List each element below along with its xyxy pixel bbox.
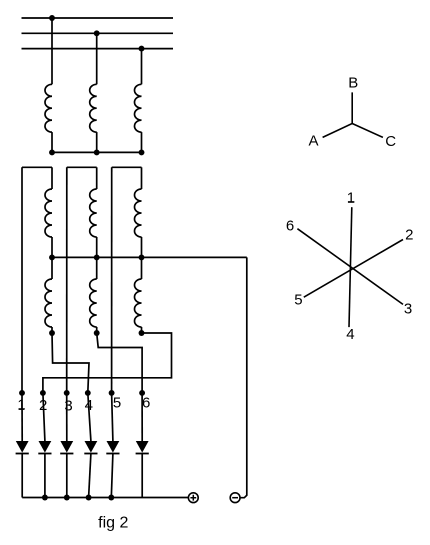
wire secondary 1 right leg upper [51, 167, 53, 189]
wire bus line L3 (phase C) [22, 48, 174, 50]
wire secondary 3 mid link [141, 237, 143, 257]
diode D3 [60, 441, 73, 454]
svg-text:fig 2: fig 2 [98, 515, 128, 532]
six-phase star line 6-3 [297, 229, 403, 305]
wire bus line L1 (phase A) [22, 17, 174, 19]
wire secondary 1 top link [22, 166, 52, 168]
node center tap dot 2 [94, 254, 100, 260]
wire diode D3 to rail [66, 454, 68, 498]
six-phase star line 2-5 [304, 240, 403, 298]
diode D1 [16, 441, 29, 454]
wire secondary 2 mid link [96, 237, 98, 257]
wire terminal 2 to diode D2 [43, 393, 45, 441]
terminal positive output [188, 493, 198, 503]
node junction dot on L1 [49, 15, 55, 21]
wire primary winding 1 tail [51, 132, 53, 152]
wire secondary 2 bottom tail [96, 327, 98, 333]
node secondary 2 bottom dot [94, 330, 100, 336]
wire center tap bus to negative [52, 256, 247, 258]
wye phasor diagram [323, 92, 383, 137]
svg-text:6: 6 [286, 218, 294, 235]
svg-text:A: A [308, 133, 318, 150]
svg-text:3: 3 [64, 397, 72, 414]
wire secondary 2 below tap [96, 257, 98, 279]
wire secondary 3 top link [112, 166, 142, 168]
node junction dot on L3 [139, 46, 145, 52]
svg-text:5: 5 [294, 292, 302, 309]
node terminal 4 dot [85, 390, 91, 396]
wire secondary 1 below tap [51, 257, 53, 279]
svg-text:1: 1 [17, 397, 25, 414]
wire secondary 2 top link [67, 166, 97, 168]
diode D6 [136, 441, 149, 454]
wire terminal 5 to diode D5 [112, 393, 113, 441]
wire secondary 2 right leg upper [96, 167, 98, 189]
wire secondary 3 below tap [141, 257, 143, 279]
node primary star dot 2 [94, 149, 100, 155]
wire secondary 1 left leg to terminal 1 [21, 167, 23, 393]
wire diode D1 to rail [21, 454, 23, 498]
node center tap dot 3 [139, 254, 145, 260]
node terminal 2 dot [40, 390, 46, 396]
node secondary 3 bottom dot [139, 330, 145, 336]
inductor secondary winding S2b [90, 279, 97, 327]
wire terminal 3 to diode D3 [66, 393, 68, 441]
wire secondary 3 right leg upper [141, 167, 143, 189]
wire terminal 4 to diode D4 [88, 393, 91, 441]
node center tap dot 1 [49, 254, 55, 260]
wire from L3 down to primary winding 3 [141, 49, 143, 85]
inductor primary winding P3 [134, 84, 141, 132]
terminal negative output [230, 493, 240, 503]
node terminal 6 dot [139, 390, 145, 396]
node junction dot on L2 [94, 30, 100, 36]
svg-text:3: 3 [404, 301, 412, 318]
node secondary 1 bottom dot [49, 330, 55, 336]
wire diode D5 to rail [111, 454, 113, 498]
node terminal 1 dot [19, 390, 25, 396]
wire primary winding 2 tail [96, 132, 98, 152]
node terminal 3 dot [64, 390, 70, 396]
inductor secondary winding S1a [45, 189, 52, 237]
six-phase star line 1-4 [349, 207, 352, 327]
wire terminal 1 to diode D1 [21, 393, 23, 441]
svg-text:1: 1 [347, 189, 355, 206]
svg-text:B: B [348, 74, 358, 91]
inductor secondary winding S3a [135, 189, 142, 237]
node rail dot D3 [64, 495, 70, 501]
wire route coil1 bottom to terminal 4 [52, 333, 89, 393]
svg-text:C: C [385, 133, 396, 150]
diode D4 [84, 441, 97, 454]
wire from L1 down to primary winding 1 [51, 18, 53, 84]
diode D2 [38, 441, 51, 454]
inductor secondary winding S3b [135, 279, 142, 327]
inductor primary winding P2 [90, 84, 97, 132]
wire route coil2 bottom to terminal 6 [97, 333, 142, 393]
wire primary winding 3 tail [141, 132, 143, 152]
wire secondary 3 left leg to terminal 5 [111, 167, 113, 393]
node rail dot D5 [108, 495, 114, 501]
wire secondary 1 bottom tail [51, 327, 53, 333]
svg-text:2: 2 [405, 227, 413, 244]
inductor primary winding P1 [45, 84, 52, 132]
wire secondary 3 bottom tail [141, 327, 143, 333]
wire route coil3 bottom to terminal 2 [43, 333, 172, 393]
wire diode D6 to rail [141, 454, 143, 498]
node rail dot D4 [86, 495, 92, 501]
wire primary star bus [52, 151, 142, 153]
wire secondary 2 left leg to terminal 3 [66, 167, 68, 393]
inductor secondary winding S2a [90, 189, 97, 237]
svg-text:5: 5 [113, 394, 121, 411]
node primary star dot 3 [139, 149, 145, 155]
diode D5 [106, 441, 119, 454]
wire negative rail drop [240, 257, 247, 497]
inductor secondary winding S1b [45, 279, 52, 327]
wire terminal 6 to diode D6 [141, 393, 143, 441]
wire positive rail [22, 497, 188, 499]
wire secondary 1 mid link [51, 237, 53, 257]
svg-text:4: 4 [346, 326, 354, 343]
svg-text:4: 4 [85, 397, 93, 414]
svg-text:2: 2 [39, 397, 47, 414]
svg-text:6: 6 [142, 394, 150, 411]
wire diode D2 to rail [44, 454, 46, 498]
wire bus line L2 (phase B) [22, 32, 174, 34]
node terminal 5 dot [109, 390, 115, 396]
node rail dot D2 [42, 495, 48, 501]
node primary star dot 1 [49, 149, 55, 155]
wire from L2 down to primary winding 2 [96, 33, 98, 84]
wire diode D4 to rail [89, 454, 91, 498]
